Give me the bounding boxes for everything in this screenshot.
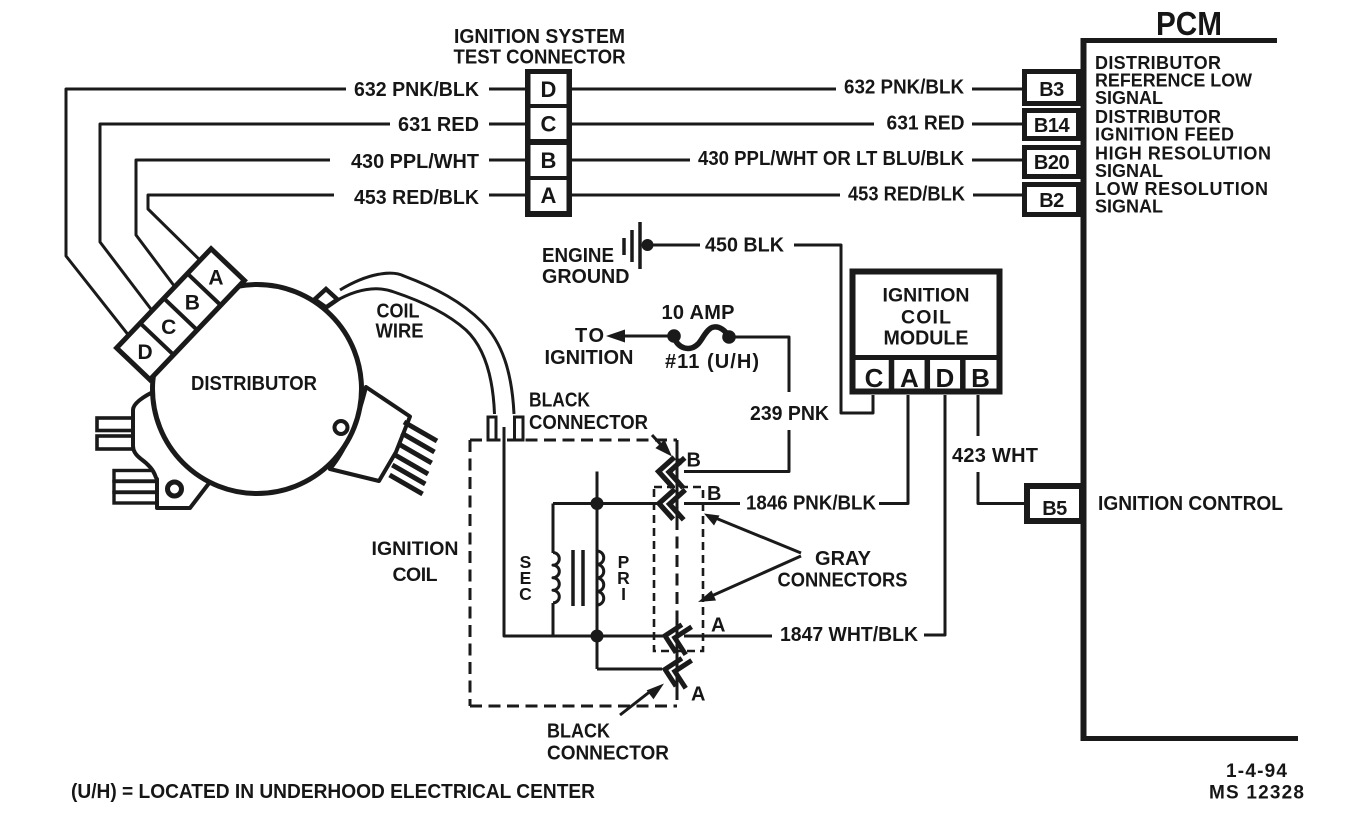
svg-text:C: C xyxy=(541,112,557,137)
svg-text:GROUND: GROUND xyxy=(542,266,630,288)
svg-text:453 RED/BLK: 453 RED/BLK xyxy=(354,187,480,209)
svg-text:B: B xyxy=(185,291,200,314)
svg-text:B: B xyxy=(687,450,701,472)
svg-text:B14: B14 xyxy=(1034,115,1071,137)
svg-text:10 AMP: 10 AMP xyxy=(662,302,735,324)
svg-text:IGNITION CONTROL: IGNITION CONTROL xyxy=(1098,493,1283,515)
svg-text:C: C xyxy=(519,584,532,604)
svg-text:430 PPL/WHT OR LT BLU/BLK: 430 PPL/WHT OR LT BLU/BLK xyxy=(698,148,965,170)
svg-text:B2: B2 xyxy=(1039,190,1064,212)
svg-text:D: D xyxy=(936,363,955,393)
svg-text:B: B xyxy=(971,363,990,393)
svg-text:IGNITION SYSTEM: IGNITION SYSTEM xyxy=(454,26,625,48)
svg-text:TO: TO xyxy=(575,325,604,347)
svg-text:PCM: PCM xyxy=(1156,5,1222,42)
svg-text:#11 (U/H): #11 (U/H) xyxy=(665,351,759,373)
svg-text:SIGNAL: SIGNAL xyxy=(1095,197,1163,217)
svg-text:632 PNK/BLK: 632 PNK/BLK xyxy=(354,79,480,101)
svg-text:MODULE: MODULE xyxy=(884,328,969,350)
svg-text:SIGNAL: SIGNAL xyxy=(1095,88,1163,108)
svg-text:IGNITION FEED: IGNITION FEED xyxy=(1095,125,1234,145)
svg-text:C: C xyxy=(865,363,884,393)
svg-text:423 WHT: 423 WHT xyxy=(952,445,1038,467)
svg-text:DISTRIBUTOR: DISTRIBUTOR xyxy=(191,373,318,395)
svg-text:D: D xyxy=(541,77,557,102)
svg-text:CONNECTOR: CONNECTOR xyxy=(529,412,649,434)
svg-text:A: A xyxy=(711,615,725,637)
svg-text:1846 PNK/BLK: 1846 PNK/BLK xyxy=(746,493,877,515)
svg-text:631 RED: 631 RED xyxy=(398,114,479,136)
svg-text:453 RED/BLK: 453 RED/BLK xyxy=(848,184,966,206)
svg-text:BLACK: BLACK xyxy=(547,721,610,743)
svg-text:430 PPL/WHT: 430 PPL/WHT xyxy=(351,151,479,173)
svg-text:A: A xyxy=(208,266,223,289)
svg-text:MS 12328: MS 12328 xyxy=(1209,783,1304,804)
svg-text:A: A xyxy=(900,363,919,393)
svg-text:B20: B20 xyxy=(1034,152,1070,174)
svg-text:COIL: COIL xyxy=(393,564,438,586)
svg-text:IGNITION: IGNITION xyxy=(883,285,970,307)
svg-text:B: B xyxy=(707,483,721,505)
svg-text:C: C xyxy=(161,316,176,339)
svg-text:239 PNK: 239 PNK xyxy=(750,403,830,425)
svg-text:A: A xyxy=(541,183,557,208)
svg-text:1847 WHT/BLK: 1847 WHT/BLK xyxy=(780,624,919,646)
svg-text:IGNITION: IGNITION xyxy=(372,538,459,560)
svg-text:IGNITION: IGNITION xyxy=(545,347,634,369)
svg-text:WIRE: WIRE xyxy=(376,321,424,343)
svg-text:631 RED: 631 RED xyxy=(887,113,965,135)
svg-text:B3: B3 xyxy=(1039,79,1064,101)
svg-text:COIL: COIL xyxy=(901,307,951,329)
svg-text:ENGINE: ENGINE xyxy=(542,245,614,267)
svg-text:CONNECTOR: CONNECTOR xyxy=(547,743,670,765)
svg-text:BLACK: BLACK xyxy=(529,390,590,412)
svg-text:GRAY: GRAY xyxy=(815,548,872,570)
svg-text:450 BLK: 450 BLK xyxy=(705,235,785,257)
svg-text:B5: B5 xyxy=(1042,498,1067,520)
svg-text:COIL: COIL xyxy=(377,301,420,323)
svg-text:(U/H) = LOCATED IN UNDERHOOD E: (U/H) = LOCATED IN UNDERHOOD ELECTRICAL … xyxy=(71,781,596,803)
svg-text:B: B xyxy=(541,148,557,173)
svg-text:A: A xyxy=(691,684,705,706)
svg-text:I: I xyxy=(621,584,626,604)
svg-text:1-4-94: 1-4-94 xyxy=(1226,761,1287,782)
svg-text:D: D xyxy=(137,341,152,364)
svg-text:SIGNAL: SIGNAL xyxy=(1095,161,1163,181)
svg-text:CONNECTORS: CONNECTORS xyxy=(778,570,908,592)
svg-text:TEST CONNECTOR: TEST CONNECTOR xyxy=(454,47,627,69)
svg-text:632 PNK/BLK: 632 PNK/BLK xyxy=(844,77,965,99)
